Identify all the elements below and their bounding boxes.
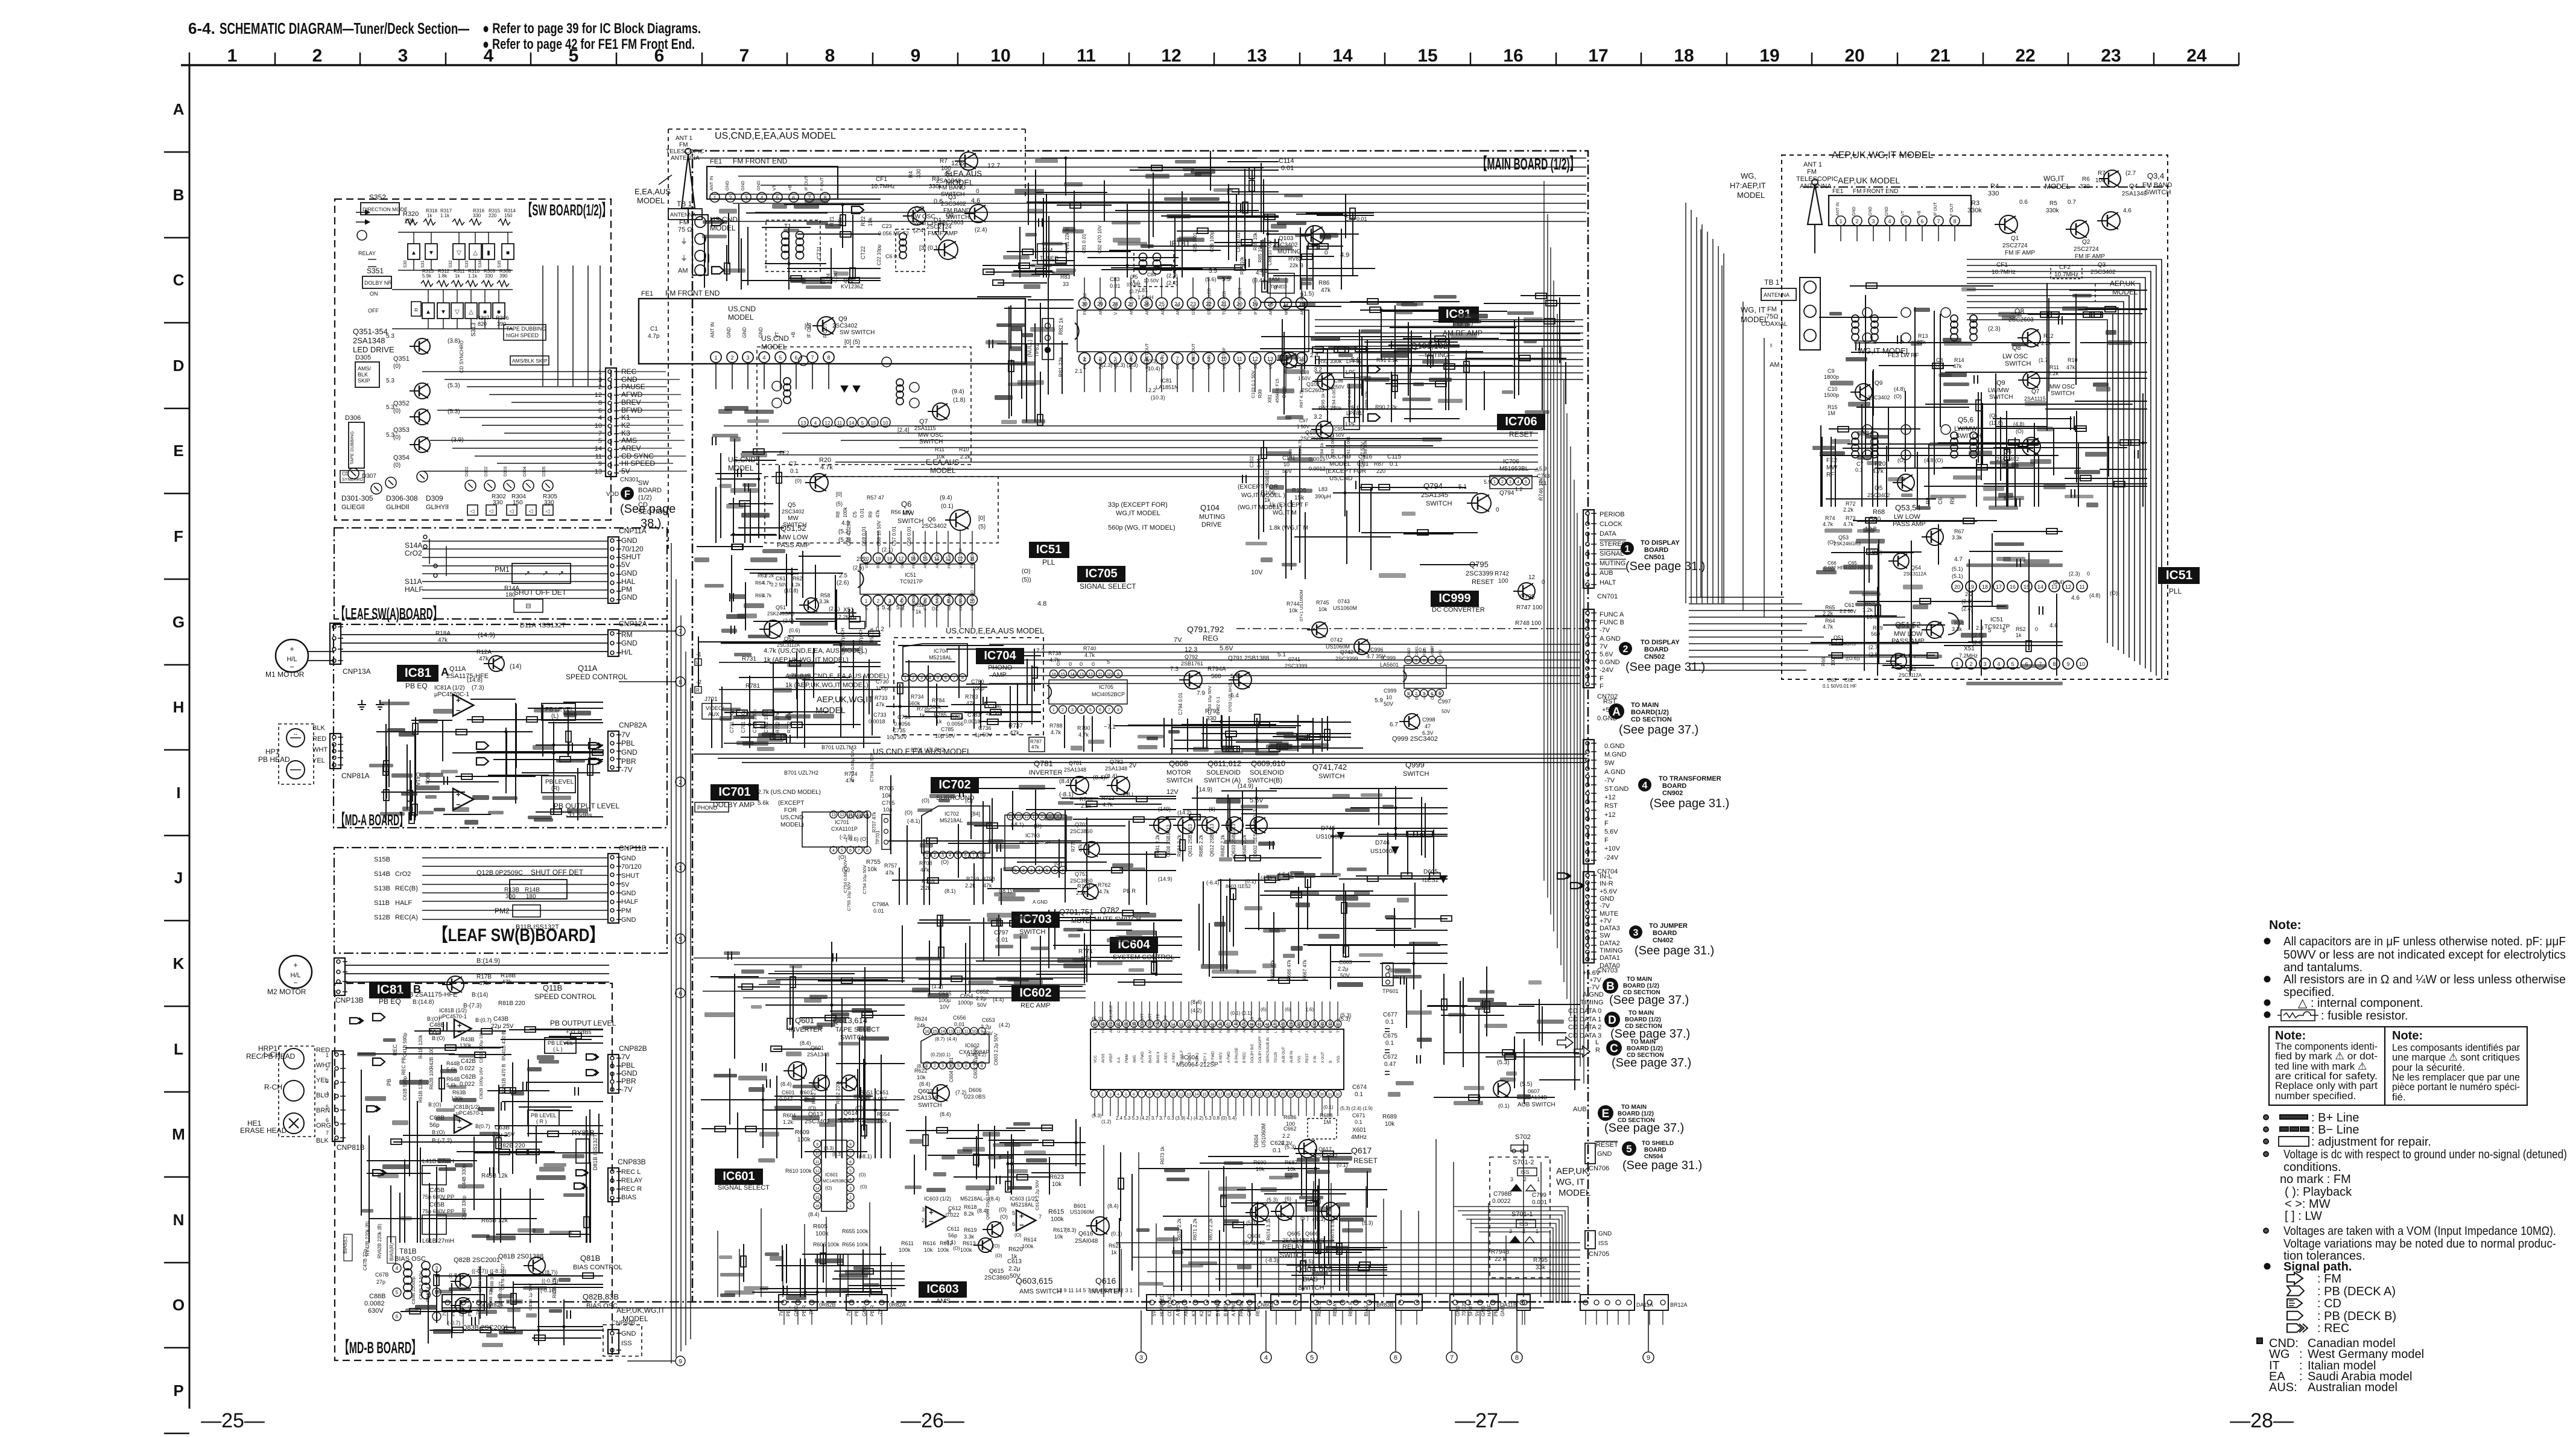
svg-text:R617: R617 <box>1053 1227 1066 1233</box>
svg-text:AM IF: AM IF <box>1176 303 1180 315</box>
svg-text:C65B: C65B <box>429 1202 445 1208</box>
svg-text:8: 8 <box>598 399 602 407</box>
svg-text:(O): (O) <box>1000 1214 1008 1220</box>
svg-text:TUNED LED: TUNED LED <box>1223 291 1227 315</box>
svg-text:F M: F M <box>1042 247 1052 254</box>
svg-text:BIAS I: BIAS I <box>1227 1023 1231 1033</box>
svg-text:Q782: Q782 <box>1110 759 1123 765</box>
svg-text:REST: REST <box>1306 1053 1309 1063</box>
svg-text:M1 MOTOR: M1 MOTOR <box>265 670 305 679</box>
svg-text:2: 2 <box>729 195 732 201</box>
svg-text:0.0018: 0.0018 <box>964 718 981 725</box>
svg-text:VREF: VREF <box>1110 1053 1113 1063</box>
svg-text:(-6.6) (O): (-6.6) (O) <box>846 836 868 842</box>
svg-text:REC(A): REC(A) <box>395 914 418 921</box>
svg-text:SIGNAL SELECT: SIGNAL SELECT <box>718 1184 770 1191</box>
svg-text:X601: X601 <box>1352 1127 1367 1134</box>
svg-text:CD DATA 0: CD DATA 0 <box>1568 1007 1601 1015</box>
svg-text:(0.1) (0.1): (0.1) (0.1) <box>1230 1010 1252 1016</box>
svg-text:IC706: IC706 <box>1505 415 1537 428</box>
svg-text:0.01: 0.01 <box>859 508 865 518</box>
svg-text:A: A <box>173 100 185 118</box>
svg-text:-24V: -24V <box>1600 667 1614 674</box>
svg-text:3.2: 3.2 <box>1314 367 1322 373</box>
svg-text:MODEL: MODEL <box>637 196 665 205</box>
svg-text:SWITCH: SWITCH <box>1298 1284 1324 1292</box>
svg-text:BLK: BLK <box>312 725 325 732</box>
svg-text:Q51,52: Q51,52 <box>780 524 806 533</box>
svg-text:(-6.4): (-6.4) <box>1206 880 1220 886</box>
svg-text:R18B: R18B <box>501 972 516 979</box>
svg-text:X51: X51 <box>843 607 854 614</box>
svg-text:1k (EXCEPT F: 1k (EXCEPT F <box>1269 502 1308 509</box>
svg-text:SHUT OFF DET: SHUT OFF DET <box>514 588 567 597</box>
svg-text:14: 14 <box>1332 46 1353 66</box>
svg-text:Q601: Q601 <box>811 1045 824 1051</box>
svg-text:((-8.6): ((-8.6) <box>449 1272 464 1278</box>
svg-text:10k: 10k <box>1287 1166 1296 1172</box>
svg-text:TUNED: TUNED <box>1040 255 1059 261</box>
svg-text:2.2μ: 2.2μ <box>1008 1266 1021 1272</box>
svg-text:4: 4 <box>326 1091 329 1097</box>
svg-text:WHT: WHT <box>316 1062 331 1069</box>
svg-text:◁: ◁ <box>470 508 475 514</box>
svg-text:50V: 50V <box>1282 468 1292 474</box>
svg-text:4.7 35V: 4.7 35V <box>1367 653 1385 659</box>
svg-text:180: 180 <box>505 592 516 598</box>
svg-text:17: 17 <box>1588 46 1608 66</box>
svg-text:(0.2)(0.1): (0.2)(0.1) <box>931 1052 951 1058</box>
svg-text:C734: C734 <box>897 714 911 720</box>
svg-text:AM BAND: AM BAND <box>948 592 952 611</box>
svg-text:Q3: Q3 <box>948 194 957 201</box>
svg-text:18: 18 <box>887 556 893 562</box>
svg-text:16: 16 <box>815 1204 820 1208</box>
svg-text:F: F <box>1604 820 1609 827</box>
svg-text:PB LEVEL: PB LEVEL <box>548 1040 574 1046</box>
svg-text:PB LEVEL: PB LEVEL <box>531 1112 557 1118</box>
svg-text:R790: R790 <box>1077 725 1090 731</box>
svg-text:5: 5 <box>779 355 782 361</box>
svg-text:R745: R745 <box>1316 600 1329 606</box>
svg-text:CD: CD <box>342 471 349 477</box>
svg-text:390: 390 <box>499 273 508 279</box>
svg-text:14: 14 <box>1070 673 1075 677</box>
svg-text:(1.2): (1.2) <box>932 983 943 989</box>
svg-text:Q351-354: Q351-354 <box>353 327 388 336</box>
svg-text:PAUSE: PAUSE <box>621 382 645 391</box>
svg-text:S31: S31 <box>421 260 425 268</box>
svg-text:180: 180 <box>526 893 536 900</box>
svg-text:B: B <box>1329 1061 1333 1063</box>
svg-text:DC CONVERTER: DC CONVERTER <box>1432 606 1485 614</box>
svg-text:(9.4): (9.4) <box>940 495 952 501</box>
svg-text:3: 3 <box>849 1187 852 1191</box>
svg-text:R794B: R794B <box>1491 1249 1510 1255</box>
svg-text:B: B <box>1606 980 1615 993</box>
svg-text:MODEL: MODEL <box>815 705 846 715</box>
svg-text:VCO STOP: VCO STOP <box>1223 347 1227 369</box>
svg-text:HALF: HALF <box>395 899 412 907</box>
svg-text:6: 6 <box>964 854 967 858</box>
svg-text:0: 0 <box>1542 579 1545 586</box>
svg-text:GND: GND <box>756 180 761 191</box>
svg-text:(4.2): (4.2) <box>1191 1007 1202 1014</box>
svg-text:2SA1348: 2SA1348 <box>1282 1237 1305 1243</box>
svg-text:AM RF IN: AM RF IN <box>1130 296 1134 315</box>
svg-text:−: − <box>1019 1220 1024 1229</box>
svg-text:7V: 7V <box>1600 643 1608 650</box>
svg-text:MUTE: MUTE <box>1600 910 1618 918</box>
svg-text:+12: +12 <box>1604 811 1616 819</box>
svg-text:Q608: Q608 <box>1169 759 1188 768</box>
svg-text:5V: 5V <box>621 881 630 889</box>
svg-text:Q81B: Q81B <box>580 1254 600 1263</box>
svg-text:−: − <box>457 1123 462 1132</box>
svg-text:-7V: -7V <box>1589 984 1600 991</box>
svg-text:-24V: -24V <box>1604 854 1619 861</box>
svg-text:22: 22 <box>2015 46 2035 66</box>
svg-text:7: 7 <box>1431 659 1433 663</box>
svg-text:C675: C675 <box>1383 1033 1397 1039</box>
svg-text:1μ 50V: 1μ 50V <box>975 732 992 738</box>
svg-text:7.3: 7.3 <box>1170 666 1179 673</box>
svg-text:2: 2 <box>1623 644 1628 655</box>
svg-text:◁: ◁ <box>529 508 533 514</box>
svg-text:PB LEVEL: PB LEVEL <box>545 779 574 785</box>
svg-text:10k: 10k <box>1256 1166 1265 1172</box>
svg-text:C672: C672 <box>1383 1054 1397 1061</box>
svg-text:Q617: Q617 <box>1318 1146 1332 1152</box>
svg-text:0.022: 0.022 <box>946 1212 960 1218</box>
svg-text:R307: R307 <box>476 315 490 321</box>
svg-text:(-8.3): (-8.3) <box>1312 1216 1326 1222</box>
svg-text:9: 9 <box>1156 1093 1159 1097</box>
svg-text:B:(-7.2): B:(-7.2) <box>432 1138 452 1144</box>
svg-text:2SC3399: 2SC3399 <box>1285 663 1308 669</box>
svg-text:YEL: YEL <box>312 757 325 764</box>
svg-text:2: 2 <box>934 1064 936 1068</box>
svg-text:MUTE: MUTE <box>1071 918 1090 925</box>
svg-text:0.01: 0.01 <box>1110 283 1121 289</box>
svg-text:300: 300 <box>505 893 516 900</box>
svg-text:(1.2): (1.2) <box>1101 1119 1112 1125</box>
svg-text:REC L: REC L <box>621 1169 641 1176</box>
svg-text:10: 10 <box>595 422 602 430</box>
svg-text:1: 1 <box>435 1314 438 1319</box>
svg-text:1.2k: 1.2k <box>791 582 801 588</box>
svg-text:R707 47k: R707 47k <box>872 811 877 833</box>
svg-text:VIDEO/: VIDEO/ <box>706 705 724 711</box>
svg-text:AUX: AUX <box>708 711 720 717</box>
svg-text:D: D <box>1608 1014 1616 1027</box>
svg-text:(3.9): (3.9) <box>451 437 464 443</box>
svg-text:R781: R781 <box>745 683 760 690</box>
svg-text:Q611 2SB1013: Q611 2SB1013 <box>1188 823 1193 857</box>
svg-text:0.5: 0.5 <box>1130 274 1138 280</box>
svg-text:27: 27 <box>1296 1093 1301 1097</box>
svg-text:IC703: IC703 <box>1025 833 1040 839</box>
svg-text:M BUB: M BUB <box>1125 1021 1129 1033</box>
svg-text:9: 9 <box>911 46 921 66</box>
svg-text:0.GND: 0.GND <box>1604 743 1625 750</box>
svg-text:GND: GND <box>621 916 636 924</box>
svg-text:11: 11 <box>1077 46 1096 66</box>
svg-text:(0): (0) <box>393 408 400 414</box>
svg-text:2SC3402: 2SC3402 <box>832 323 858 329</box>
svg-text:70/120: 70/120 <box>1274 1052 1278 1063</box>
svg-text:(2.4): (2.4) <box>1166 280 1178 286</box>
svg-text:R689: R689 <box>1382 1114 1397 1120</box>
svg-text:C653: C653 <box>982 1017 995 1023</box>
svg-text:B(0.7): B(0.7) <box>475 1123 490 1129</box>
svg-text:(0.1): (0.1) <box>941 503 954 510</box>
svg-text:100k: 100k <box>843 507 848 518</box>
svg-text:C41B 590p: C41B 590p <box>402 1032 408 1057</box>
svg-text:8701 UZL7H2: 8701 UZL7H2 <box>911 747 945 753</box>
svg-text:TIMING: TIMING <box>1600 947 1623 954</box>
svg-text:Q795: Q795 <box>1469 560 1489 569</box>
svg-text:F: F <box>174 527 183 545</box>
svg-text:R84 10k: R84 10k <box>1239 256 1245 274</box>
svg-text:(5.3): (5.3) <box>1267 1197 1278 1203</box>
svg-text:AMS AVAILABLE: AMS AVAILABLE <box>1110 1005 1113 1033</box>
svg-text:M51953BL: M51953BL <box>1499 466 1529 472</box>
svg-text:2SC2603: 2SC2603 <box>1300 436 1323 442</box>
svg-text:FM BAND: FM BAND <box>935 592 940 611</box>
svg-text:R733: R733 <box>875 695 888 701</box>
svg-text:C755 10μ 50V: C755 10μ 50V <box>846 882 852 911</box>
svg-text:0: 0 <box>1092 661 1095 667</box>
svg-text:-2: -2 <box>696 679 701 686</box>
svg-text:IC702: IC702 <box>938 778 970 791</box>
svg-text:(0.1): (0.1) <box>1498 1103 1510 1109</box>
svg-text:CNP11A: CNP11A <box>619 527 647 535</box>
svg-text:WG,IT MODEL: WG,IT MODEL <box>1116 510 1160 517</box>
svg-text:2: 2 <box>1522 1228 1525 1234</box>
svg-text:C612: C612 <box>948 1205 961 1211</box>
svg-text:MODEL: MODEL <box>930 466 956 475</box>
svg-text:J: J <box>174 869 183 887</box>
svg-text:S351: S351 <box>367 267 384 275</box>
svg-text:(O): (O) <box>905 810 913 816</box>
svg-text:13: 13 <box>831 813 836 817</box>
svg-text:CT21: CT21 <box>816 246 822 259</box>
svg-text:IC51: IC51 <box>905 572 916 578</box>
svg-text:CNP13A: CNP13A <box>343 667 371 676</box>
svg-text:R14B: R14B <box>525 887 540 893</box>
svg-text:M5218AL—(8.4): M5218AL—(8.4) <box>960 1196 1000 1202</box>
svg-text:(14.9): (14.9) <box>1238 783 1253 790</box>
svg-text:2: 2 <box>1062 708 1064 712</box>
svg-text:Q751: Q751 <box>1075 871 1088 877</box>
svg-text:2SC3860: 2SC3860 <box>1070 828 1093 834</box>
svg-text:RESET: RESET <box>1472 579 1494 586</box>
svg-text:(5.3): (5.3) <box>1497 1059 1510 1066</box>
svg-text:GND: GND <box>900 559 905 568</box>
svg-text:RV82: RV82 <box>1288 256 1302 262</box>
svg-text:Q354: Q354 <box>393 454 410 462</box>
svg-text:5.1: 5.1 <box>1277 652 1286 658</box>
svg-text:0: 0 <box>976 188 979 195</box>
svg-text:(O): (O) <box>1034 823 1042 829</box>
svg-text:X OUT: X OUT <box>1321 1052 1325 1063</box>
svg-text:I1ES2: I1ES2 <box>1422 877 1439 884</box>
svg-text:C61B 590p: C61B 590p <box>402 1076 408 1100</box>
svg-text:C784: C784 <box>951 714 964 720</box>
svg-text:4.7k: 4.7k <box>820 464 833 471</box>
svg-text:SYSTEM CONTROL: SYSTEM CONTROL <box>1113 954 1174 961</box>
svg-text:μPC4570-1: μPC4570-1 <box>439 1014 467 1020</box>
svg-text:0.022: 0.022 <box>460 1065 475 1072</box>
svg-text:C102: C102 <box>1249 455 1255 468</box>
svg-text:μPC4570C-1: μPC4570C-1 <box>434 691 469 698</box>
svg-text:Q701,751: Q701,751 <box>1059 907 1093 916</box>
svg-text:CN701: CN701 <box>1597 593 1618 600</box>
svg-text:Q5: Q5 <box>788 502 796 509</box>
svg-text:PHONO: PHONO <box>697 805 717 811</box>
svg-text:TIMING: TIMING <box>1580 999 1604 1006</box>
svg-text:Q81B 2S01388: Q81B 2S01388 <box>498 1253 543 1260</box>
svg-text:0.0012: 0.0012 <box>1309 466 1326 472</box>
svg-text:Q782: Q782 <box>1100 906 1119 915</box>
svg-text:(O): (O) <box>1022 568 1030 575</box>
svg-text:VCO STOP: VCO STOP <box>959 548 963 568</box>
svg-text:2: 2 <box>730 355 733 361</box>
svg-text:5V: 5V <box>621 467 630 475</box>
svg-text:24: 24 <box>2186 46 2207 66</box>
svg-text:D746: D746 <box>1375 840 1390 846</box>
svg-text:ISS: ISS <box>1598 1240 1608 1247</box>
svg-text:AM: AM <box>678 267 688 274</box>
svg-text:13: 13 <box>595 468 602 475</box>
svg-text:47k: 47k <box>983 883 992 889</box>
svg-text:FM: FM <box>679 219 689 226</box>
svg-text:C95: C95 <box>1334 427 1343 432</box>
svg-text:MODEL: MODEL <box>728 313 754 322</box>
svg-text:【MAIN BOARD (1/2)】: 【MAIN BOARD (1/2)】 <box>1478 155 1579 173</box>
svg-text:R62B 100: R62B 100 <box>429 1068 434 1090</box>
svg-text:AVSS: AVSS <box>1102 1053 1106 1063</box>
svg-text:70/120: 70/120 <box>621 863 642 871</box>
svg-text:220: 220 <box>1376 468 1385 474</box>
svg-text:5: 5 <box>1525 480 1527 484</box>
svg-text:AM OSC: AM OSC <box>923 553 928 568</box>
svg-text:DOLBY ON/OFF: DOLBY ON/OFF <box>1259 1036 1262 1063</box>
svg-text:B:(O): B:(O) <box>428 1102 441 1108</box>
svg-text:2: 2 <box>1524 1176 1527 1182</box>
svg-text:330k: 330k <box>929 183 943 190</box>
svg-text:M MUTE: M MUTE <box>1282 1018 1286 1033</box>
svg-text:R96 4.7k: R96 4.7k <box>1297 439 1303 457</box>
svg-text:330: 330 <box>473 213 481 218</box>
svg-text:8: 8 <box>1423 659 1425 663</box>
svg-text:2SA1115: 2SA1115 <box>914 425 936 431</box>
svg-text:TAPE DUBBING: TAPE DUBBING <box>349 431 355 465</box>
svg-text:R83B 10k: R83B 10k <box>552 1277 557 1298</box>
svg-text:B11B ISS132T: B11B ISS132T <box>516 924 559 931</box>
svg-text:REC AMP: REC AMP <box>1021 1002 1051 1009</box>
svg-text:7: 7 <box>1108 708 1110 712</box>
svg-text:C45B: C45B <box>429 1187 445 1194</box>
svg-text:MOTOR: MOTOR <box>1166 769 1191 776</box>
svg-text:17: 17 <box>1218 1093 1223 1097</box>
svg-text:TUNED: TUNED <box>1270 284 1287 290</box>
svg-text:RESET: RESET <box>1596 1141 1618 1149</box>
svg-text:2.5: 2.5 <box>839 573 847 579</box>
svg-text:Q701: Q701 <box>1075 822 1088 828</box>
svg-text:PB EQ: PB EQ <box>379 997 401 1006</box>
svg-text:CN402: CN402 <box>1653 937 1673 944</box>
svg-text:GND: GND <box>742 327 747 338</box>
svg-text:5.9: 5.9 <box>1375 697 1383 704</box>
svg-text:L61B 27mH: L61B 27mH <box>422 1238 454 1245</box>
svg-text:SW: SW <box>638 480 649 487</box>
svg-text:IC999: IC999 <box>1438 592 1470 605</box>
svg-text:150: 150 <box>504 213 513 218</box>
svg-text:16: 16 <box>1210 1093 1215 1097</box>
svg-text:BIAS(L): BIAS(L) <box>343 1237 348 1254</box>
svg-text:CN706: CN706 <box>1589 1165 1609 1172</box>
svg-text:4.9: 4.9 <box>1340 252 1349 259</box>
svg-text:AUB OUT: AUB OUT <box>1282 1047 1286 1063</box>
svg-text:M.GND: M.GND <box>1604 751 1627 758</box>
svg-text:3.2: 3.2 <box>1314 414 1322 420</box>
svg-text:LPF82: LPF82 <box>1346 358 1362 364</box>
svg-text:AMS/BLK SKIP: AMS/BLK SKIP <box>512 358 548 364</box>
svg-text:L: L <box>696 660 699 665</box>
svg-text:(2.6): (2.6) <box>837 580 849 586</box>
svg-text:47k: 47k <box>920 867 929 873</box>
svg-text:1: 1 <box>849 1204 852 1208</box>
svg-text:3: 3 <box>326 1078 329 1084</box>
svg-text:R746 10k: R746 10k <box>1538 477 1544 501</box>
svg-text:SW SWITCH: SW SWITCH <box>840 329 875 336</box>
svg-text:MW OSC: MW OSC <box>918 432 943 439</box>
svg-text:F: F <box>1600 683 1604 690</box>
svg-text:FUNC A: FUNC A <box>1600 611 1624 618</box>
svg-text:2.1: 2.1 <box>1075 368 1083 374</box>
svg-text:R12A: R12A <box>476 649 492 656</box>
svg-text:15: 15 <box>932 1030 937 1034</box>
svg-text:U23.0BS: U23.0BS <box>964 1094 986 1100</box>
svg-text:0: 0 <box>1496 507 1499 513</box>
svg-text:S11A: S11A <box>405 577 422 586</box>
svg-text:0.01: 0.01 <box>1357 461 1369 468</box>
svg-text:PBL: PBL <box>621 1061 635 1070</box>
svg-text:C116: C116 <box>1358 454 1373 460</box>
svg-text:R51 1k: R51 1k <box>869 627 875 643</box>
svg-text:HP1: HP1 <box>265 747 280 756</box>
svg-text:⊟: ⊟ <box>525 603 531 610</box>
svg-text:R: R <box>1595 1047 1600 1054</box>
svg-text:IC705: IC705 <box>1085 567 1117 580</box>
svg-text:Q21: Q21 <box>843 278 853 284</box>
svg-text:Q999 2SC3402: Q999 2SC3402 <box>1392 735 1438 743</box>
svg-text:27p: 27p <box>376 1279 385 1285</box>
svg-text:1.8k (WG,IT M: 1.8k (WG,IT M <box>1269 525 1308 531</box>
svg-text:R740: R740 <box>1083 646 1097 652</box>
svg-text:(O): (O) <box>941 859 949 865</box>
svg-text:R13B: R13B <box>504 887 519 893</box>
svg-text:FM IN: FM IN <box>1083 358 1087 369</box>
svg-text:R7: R7 <box>940 158 948 165</box>
svg-text:30: 30 <box>1320 1093 1324 1097</box>
svg-text:HALF: HALF <box>621 898 638 906</box>
svg-text:PB EQ: PB EQ <box>405 682 428 690</box>
svg-text:D602 I1ES2 2SB1013: D602 I1ES2 2SB1013 <box>1253 809 1258 857</box>
svg-text:7.9: 7.9 <box>1197 690 1205 697</box>
